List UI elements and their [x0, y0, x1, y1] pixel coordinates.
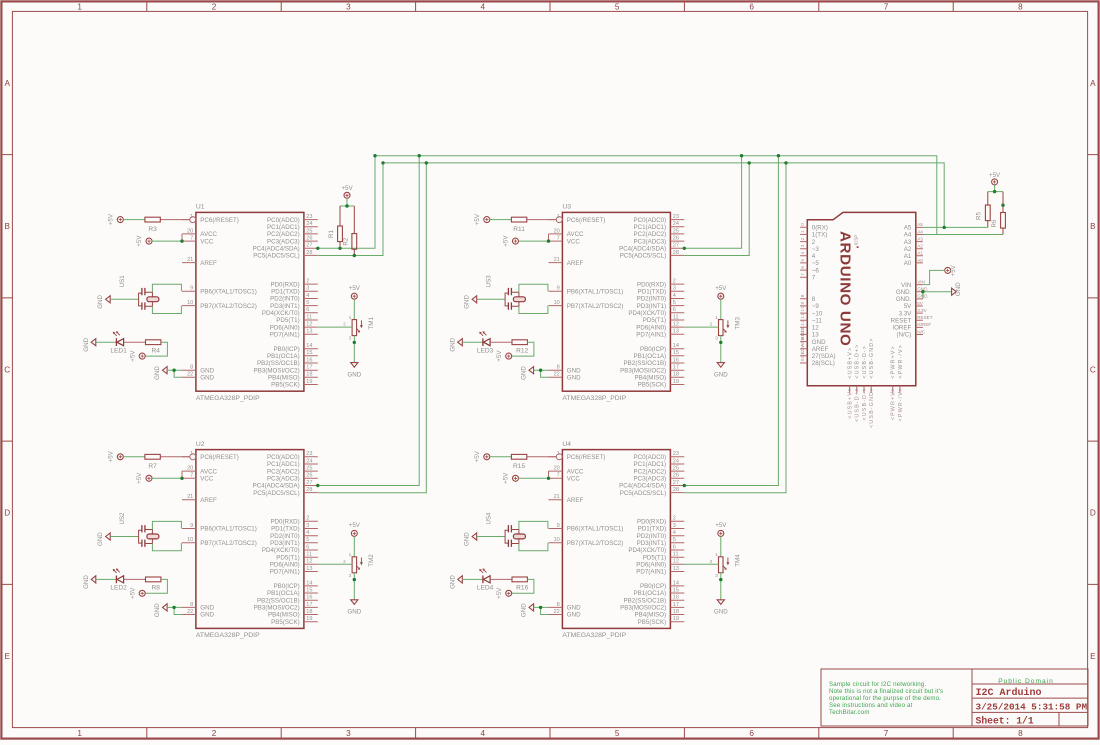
- +5V supply at R16: [496, 587, 512, 599]
- wire +5V to R7: [123, 456, 145, 458]
- wire R16 to +5V: [512, 579, 534, 593]
- svg-text:PD5(T1): PD5(T1): [643, 554, 666, 561]
- svg-text:21: 21: [187, 494, 193, 500]
- svg-text:AREF: AREF: [567, 260, 584, 267]
- svg-text:LED1: LED1: [110, 347, 127, 354]
- svg-text:+5V: +5V: [341, 185, 353, 192]
- svg-text:9: 9: [190, 286, 193, 292]
- svg-text:17: 17: [306, 365, 312, 371]
- junction U1 VCC: [180, 239, 183, 242]
- wire LED1 to R4: [124, 341, 146, 343]
- svg-text:22: 22: [187, 609, 193, 615]
- svg-text:PB2(SS/OC1B): PB2(SS/OC1B): [624, 597, 667, 604]
- svg-text:1: 1: [800, 230, 806, 233]
- svg-text:Sample circuit for I2C network: Sample circuit for I2C networking.: [829, 681, 926, 688]
- svg-text:GND: GND: [714, 609, 728, 616]
- svg-text:PC5(ADC5/SCL): PC5(ADC5/SCL): [620, 253, 666, 260]
- svg-text:6: 6: [673, 307, 676, 313]
- svg-text:PD2(INT0): PD2(INT0): [270, 533, 300, 540]
- svg-text:~10: ~10: [812, 310, 823, 317]
- svg-text:27: 27: [306, 243, 312, 249]
- svg-text:TM1: TM1: [368, 317, 375, 330]
- svg-text:25: 25: [673, 466, 679, 472]
- Arduino UNO left pin labels inside: [812, 225, 836, 368]
- svg-text:R15: R15: [513, 463, 525, 470]
- wire US4 to U4 XTAL2 pin 10: [519, 543, 548, 551]
- resistor R2: [342, 206, 356, 256]
- junction dots on SDA bus: [373, 154, 780, 157]
- svg-text:6: 6: [306, 307, 309, 313]
- svg-text:AREF: AREF: [812, 346, 829, 353]
- svg-text:20: 20: [554, 466, 560, 472]
- svg-text:AREF: AREF: [200, 260, 217, 267]
- svg-text:6: 6: [749, 729, 754, 738]
- svg-text:2: 2: [306, 516, 309, 522]
- svg-text:3: 3: [306, 523, 309, 529]
- svg-text:GND: GND: [812, 339, 826, 346]
- svg-text:~5: ~5: [812, 260, 820, 267]
- wire +5V to TM2: [353, 536, 355, 557]
- wire US3 to U3 XTAL1 pin 9: [519, 284, 548, 292]
- wire US1 to U1 XTAL1 pin 9: [152, 284, 181, 292]
- svg-text:R12: R12: [516, 347, 528, 354]
- wire +5V to U3 VCC: [518, 240, 548, 242]
- svg-text:GND.: GND.: [896, 289, 912, 296]
- wire GND to US2: [110, 536, 138, 538]
- wire US1 to U1 XTAL2 pin 10: [152, 306, 181, 314]
- wire GND to U3 pins 8 and 22: [534, 370, 549, 377]
- wire Arduino A5 to R5: [923, 226, 988, 228]
- resistor R7: [145, 454, 190, 470]
- svg-text:6: 6: [673, 544, 676, 550]
- svg-text:13: 13: [812, 332, 819, 339]
- Arduino UNO right pin labels outside: [917, 222, 933, 334]
- svg-text:+5V: +5V: [503, 235, 510, 247]
- wire +5V to R1 R2: [340, 198, 354, 206]
- +5V supply at U1 RESET: [107, 213, 123, 225]
- svg-text:PC4(ADC4/SDA): PC4(ADC4/SDA): [619, 483, 666, 490]
- wire LED4 to R16: [490, 578, 512, 580]
- svg-text:4: 4: [481, 3, 486, 12]
- svg-text:<PWR+V>: <PWR+V>: [891, 387, 897, 420]
- wire U3 SCL to bus: [684, 163, 749, 256]
- svg-text:7: 7: [557, 473, 560, 479]
- IC U3 ATMEGA328P_PDIP: [549, 204, 685, 402]
- svg-text:PD7(AIN1): PD7(AIN1): [636, 569, 666, 576]
- svg-text:VCC: VCC: [200, 476, 214, 483]
- LED LED4: [477, 568, 494, 591]
- svg-text:11: 11: [673, 314, 679, 320]
- svg-text:3: 3: [306, 286, 309, 292]
- svg-text:PC0(ADC0): PC0(ADC0): [634, 454, 667, 461]
- svg-text:27(SDA): 27(SDA): [812, 353, 836, 360]
- svg-text:GND: GND: [200, 375, 214, 382]
- +5V supply at R8: [129, 587, 145, 599]
- svg-text:PD6(AIN0): PD6(AIN0): [636, 562, 666, 569]
- svg-text:PD5(T1): PD5(T1): [643, 317, 666, 324]
- junction Arduino GND: [921, 290, 924, 293]
- svg-text:4: 4: [673, 293, 676, 299]
- +5V supply at U4 RESET: [474, 450, 490, 462]
- svg-text:PC3(ADC3): PC3(ADC3): [634, 476, 667, 483]
- wire LED2 to R8: [124, 578, 146, 580]
- wire +5V to R15: [490, 456, 512, 458]
- svg-text:R11: R11: [513, 226, 525, 233]
- wire TM1 to GND: [353, 336, 355, 363]
- svg-text:24: 24: [306, 458, 312, 464]
- svg-text:A: A: [1090, 79, 1096, 88]
- +5V supply at TM4: [715, 522, 727, 536]
- svg-text:11: 11: [306, 314, 312, 320]
- svg-text:<USB+V>: <USB+V>: [848, 387, 854, 419]
- trimmer TM2: [343, 552, 375, 579]
- svg-text:LED3: LED3: [477, 347, 494, 354]
- svg-text:AVCC: AVCC: [200, 468, 217, 475]
- svg-text:10: 10: [800, 305, 806, 311]
- svg-text:U1: U1: [196, 204, 205, 211]
- svg-text:16: 16: [673, 357, 679, 363]
- trimmer TM1: [343, 315, 375, 342]
- ground for TM4: [714, 600, 728, 616]
- svg-text:PB4(MISO): PB4(MISO): [635, 612, 667, 619]
- wire U4 SCL to bus: [684, 163, 786, 493]
- svg-text:16: 16: [673, 595, 679, 601]
- svg-text:28: 28: [306, 250, 312, 256]
- svg-text:+5V: +5V: [715, 285, 727, 292]
- svg-text:8: 8: [812, 296, 816, 303]
- svg-text:8: 8: [800, 294, 806, 297]
- svg-text:4: 4: [812, 253, 816, 260]
- trimmer TM3: [710, 315, 742, 342]
- ground for LED4: [449, 575, 462, 589]
- svg-text:2: 2: [673, 279, 676, 285]
- svg-text:PD6(AIN0): PD6(AIN0): [270, 324, 300, 331]
- svg-text:10: 10: [554, 300, 560, 306]
- ground at U4 pins 8/22: [521, 603, 534, 617]
- svg-text:A4: A4: [904, 232, 912, 239]
- svg-text:26: 26: [306, 473, 312, 479]
- svg-text:3: 3: [715, 573, 718, 579]
- svg-text:A4: A4: [917, 229, 923, 234]
- svg-text:PB7(XTAL2/TOSC2): PB7(XTAL2/TOSC2): [567, 303, 624, 310]
- svg-text:2: 2: [212, 729, 217, 738]
- svg-text:PD3(INT1): PD3(INT1): [637, 540, 667, 547]
- svg-text:GND: GND: [955, 282, 962, 296]
- frame column ticks top/bottom: [147, 3, 953, 738]
- wire TM2 to GND: [353, 573, 355, 600]
- wire US4 to U4 XTAL1 pin 9: [519, 521, 548, 529]
- svg-text:A1: A1: [917, 251, 923, 256]
- svg-text:3: 3: [800, 244, 806, 247]
- title block box: [821, 669, 1088, 726]
- svg-text:PB5(SCK): PB5(SCK): [638, 619, 667, 626]
- svg-text:5: 5: [615, 729, 620, 738]
- svg-text:12: 12: [306, 322, 312, 328]
- svg-text:R5: R5: [976, 211, 983, 219]
- svg-text:PD7(AIN1): PD7(AIN1): [270, 332, 300, 339]
- svg-text:U4: U4: [562, 441, 571, 448]
- svg-text:15: 15: [306, 350, 312, 356]
- svg-text:23: 23: [673, 214, 679, 220]
- resistor R1: [328, 206, 342, 248]
- svg-text:A0: A0: [904, 260, 912, 267]
- +5V supply at R4: [129, 350, 145, 362]
- svg-text:2: 2: [800, 237, 806, 240]
- resistor R4: [146, 340, 161, 355]
- svg-text:GND: GND: [567, 375, 581, 382]
- LED LED1: [110, 331, 127, 354]
- wire GND to LED3: [462, 341, 483, 343]
- svg-text:27: 27: [306, 480, 312, 486]
- svg-text:17: 17: [306, 602, 312, 608]
- svg-text:LED4: LED4: [477, 585, 494, 592]
- svg-text:+5V: +5V: [349, 522, 361, 529]
- svg-text:PD0(RXD): PD0(RXD): [270, 519, 299, 526]
- svg-text:D: D: [4, 509, 10, 518]
- svg-text:Sheet: 1/1: Sheet: 1/1: [976, 715, 1034, 726]
- wire U1 SCL to bus: [318, 163, 383, 256]
- svg-text:13: 13: [673, 566, 679, 572]
- svg-text:21: 21: [554, 257, 560, 263]
- svg-text:PC3(ADC3): PC3(ADC3): [267, 238, 300, 245]
- svg-text:IOREF: IOREF: [917, 322, 931, 327]
- svg-text:TechBitar.com: TechBitar.com: [829, 709, 870, 716]
- svg-text:I2C Arduino: I2C Arduino: [976, 687, 1042, 699]
- +5V supply at TM3: [715, 285, 727, 299]
- svg-text:3.3V: 3.3V: [917, 308, 927, 313]
- svg-text:<PWR+V>: <PWR+V>: [891, 345, 897, 378]
- svg-text:B: B: [4, 222, 10, 231]
- Arduino UNO left pin labels outside: [800, 223, 806, 362]
- svg-text:VCC: VCC: [567, 238, 581, 245]
- +5V supply at TM1: [349, 285, 361, 299]
- svg-text:8: 8: [1018, 729, 1023, 738]
- svg-text:3: 3: [673, 286, 676, 292]
- svg-text:23: 23: [673, 451, 679, 457]
- ground at U2 pins 8/22: [154, 603, 167, 617]
- svg-text:15: 15: [673, 587, 679, 593]
- crystal US2: [119, 512, 159, 547]
- svg-text:PB1(OC1A): PB1(OC1A): [267, 590, 300, 597]
- svg-text:+5V: +5V: [496, 587, 503, 599]
- svg-text:AVCC: AVCC: [567, 468, 584, 475]
- svg-text:<USB-D+>: <USB-D+>: [855, 344, 861, 379]
- svg-text:22: 22: [554, 609, 560, 615]
- svg-text:4: 4: [673, 530, 676, 536]
- svg-text:E: E: [1090, 652, 1096, 661]
- resistor R11: [511, 217, 556, 233]
- svg-text:~9: ~9: [812, 303, 820, 310]
- svg-text:PB6(XTAL1/TOSC1): PB6(XTAL1/TOSC1): [567, 526, 624, 533]
- frame row labels: [4, 79, 1096, 661]
- wire SDA bus: [375, 156, 937, 235]
- svg-text:3.3V: 3.3V: [899, 310, 913, 317]
- LED LED3: [477, 331, 494, 354]
- junction R2 bottom: [353, 254, 356, 257]
- svg-text:8: 8: [190, 365, 193, 371]
- svg-text:+5V: +5V: [107, 450, 114, 462]
- svg-text:GND: GND: [200, 367, 214, 374]
- svg-text:<PWR-/V>: <PWR-/V>: [898, 387, 904, 422]
- svg-text:18: 18: [306, 609, 312, 615]
- note text green: [829, 681, 943, 716]
- svg-text:7: 7: [190, 236, 193, 242]
- svg-text:15: 15: [673, 350, 679, 356]
- svg-text:13: 13: [673, 329, 679, 335]
- svg-text:~3: ~3: [812, 246, 820, 253]
- svg-text:7: 7: [812, 274, 816, 281]
- resistor R3: [145, 217, 190, 233]
- svg-text:US4: US4: [485, 512, 492, 525]
- svg-text:PC0(ADC0): PC0(ADC0): [267, 454, 300, 461]
- svg-text:PC3(ADC3): PC3(ADC3): [634, 238, 667, 245]
- svg-text:+5V: +5V: [503, 472, 510, 484]
- svg-text:GND: GND: [347, 609, 361, 616]
- wire LED3 to R12: [490, 341, 512, 343]
- svg-text:D: D: [1090, 509, 1096, 518]
- svg-text:24: 24: [306, 221, 312, 227]
- svg-text:18: 18: [673, 609, 679, 615]
- svg-text:GND: GND: [567, 367, 581, 374]
- svg-text:~11: ~11: [812, 317, 823, 324]
- svg-text:PB5(SCK): PB5(SCK): [638, 382, 667, 389]
- svg-text:PD2(INT0): PD2(INT0): [637, 533, 667, 540]
- svg-text:PC0(ADC0): PC0(ADC0): [267, 217, 300, 224]
- +5V supply for R5 R6: [989, 172, 1001, 185]
- svg-text:3: 3: [349, 336, 352, 342]
- svg-text:GND: GND: [97, 532, 104, 546]
- svg-text:PD4(XCK/T0): PD4(XCK/T0): [628, 547, 666, 554]
- wire U4 PD6 pin 12 to TM4 wiper: [684, 563, 718, 565]
- svg-text:PC2(ADC2): PC2(ADC2): [267, 468, 300, 475]
- ground for US1: [97, 294, 110, 308]
- svg-text:PB6(XTAL1/TOSC1): PB6(XTAL1/TOSC1): [200, 289, 257, 296]
- svg-text:PB3(MOSI/OC2): PB3(MOSI/OC2): [254, 605, 300, 612]
- svg-text:14: 14: [673, 580, 679, 586]
- +5V supply at R12: [496, 350, 512, 362]
- svg-text:GND: GND: [347, 371, 361, 378]
- +5V supply at U3 RESET: [474, 213, 490, 225]
- svg-text:19: 19: [306, 616, 312, 622]
- svg-text:PB0(ICP): PB0(ICP): [274, 583, 300, 590]
- svg-text:5: 5: [615, 3, 620, 12]
- wire GND to LED1: [96, 341, 117, 343]
- svg-text:PD4(XCK/T0): PD4(XCK/T0): [262, 547, 300, 554]
- IC U2 ATMEGA328P_PDIP: [182, 441, 318, 639]
- svg-text:9: 9: [557, 286, 560, 292]
- svg-text:2: 2: [212, 3, 217, 12]
- svg-text:PD2(INT0): PD2(INT0): [270, 296, 300, 303]
- svg-text:A5: A5: [917, 222, 923, 227]
- svg-text:20: 20: [187, 466, 193, 472]
- svg-text:+5V: +5V: [474, 213, 481, 225]
- svg-text:27: 27: [673, 480, 679, 486]
- svg-text:PC5(ADC5/SCL): PC5(ADC5/SCL): [620, 490, 666, 497]
- svg-text:PB5(SCK): PB5(SCK): [271, 382, 300, 389]
- resistor R15: [511, 454, 556, 470]
- svg-text:PD0(RXD): PD0(RXD): [637, 281, 666, 288]
- wire +5V to TM3: [720, 299, 722, 320]
- svg-text:PC4(ADC4/SDA): PC4(ADC4/SDA): [253, 246, 300, 253]
- Arduino UNO right pin labels inside: [891, 225, 913, 339]
- svg-text:PD1(TXD): PD1(TXD): [638, 526, 667, 533]
- svg-text:+5V: +5V: [129, 350, 136, 362]
- svg-text:VIN: VIN: [901, 282, 911, 289]
- wire US3 to U3 XTAL2 pin 10: [519, 306, 548, 314]
- svg-text:4: 4: [481, 729, 486, 738]
- LED LED2: [110, 568, 127, 591]
- ground for LED1: [83, 337, 96, 351]
- svg-text:PB3(MOSI/OC2): PB3(MOSI/OC2): [620, 367, 666, 374]
- svg-text:23: 23: [306, 214, 312, 220]
- svg-text:3: 3: [673, 523, 676, 529]
- svg-text:GND: GND: [83, 575, 90, 589]
- svg-text:AVCC: AVCC: [567, 231, 584, 238]
- svg-text:12: 12: [673, 559, 679, 565]
- svg-text:19: 19: [673, 616, 679, 622]
- svg-text:25: 25: [306, 466, 312, 472]
- svg-text:21: 21: [554, 494, 560, 500]
- svg-text:R6: R6: [991, 219, 998, 227]
- junction A5 SCL: [943, 226, 946, 229]
- svg-text:20: 20: [554, 228, 560, 234]
- svg-text:PB6(XTAL1/TOSC1): PB6(XTAL1/TOSC1): [200, 526, 257, 533]
- resistor R5: [976, 192, 991, 228]
- svg-text:+5V: +5V: [129, 587, 136, 599]
- svg-text:<USB-GND>: <USB-GND>: [869, 387, 875, 428]
- svg-text:7: 7: [884, 3, 889, 12]
- svg-text:N/C: N/C: [917, 329, 926, 334]
- svg-text:C: C: [1090, 366, 1096, 375]
- svg-text:PB5(SCK): PB5(SCK): [271, 619, 300, 626]
- junction +5V R1 R2: [345, 204, 348, 207]
- junction R1 bottom: [338, 247, 341, 250]
- svg-text:12: 12: [800, 320, 806, 326]
- svg-text:15: 15: [306, 587, 312, 593]
- svg-text:7: 7: [884, 729, 889, 738]
- svg-text:(N/C): (N/C): [897, 332, 912, 339]
- svg-text:PB3(MOSI/OC2): PB3(MOSI/OC2): [254, 367, 300, 374]
- svg-text:GND: GND: [567, 612, 581, 619]
- junction dots at pin27 connections: [316, 247, 686, 488]
- svg-text:GND: GND: [97, 294, 104, 308]
- svg-text:1: 1: [349, 315, 352, 321]
- svg-text:US3: US3: [485, 275, 492, 288]
- svg-text:<USB-GND>: <USB-GND>: [869, 338, 875, 379]
- wire +5V to U4 VCC: [518, 477, 548, 479]
- crystal US3: [485, 275, 525, 310]
- wire GND to U2 pins 8 and 22: [167, 607, 182, 614]
- svg-text:PB0(ICP): PB0(ICP): [640, 346, 666, 353]
- Arduino UNO left pin stubs: [800, 227, 807, 363]
- svg-text:25: 25: [673, 228, 679, 234]
- svg-text:PB2(SS/OC1B): PB2(SS/OC1B): [624, 360, 667, 367]
- svg-text:PB4(MISO): PB4(MISO): [268, 375, 300, 382]
- ground for TM3: [714, 363, 728, 379]
- resistor R8: [146, 577, 161, 592]
- svg-text:PD5(T1): PD5(T1): [276, 554, 299, 561]
- svg-text:PC5(ADC5/SCL): PC5(ADC5/SCL): [253, 490, 299, 497]
- svg-text:1: 1: [190, 214, 193, 220]
- svg-text:14: 14: [306, 580, 312, 586]
- svg-text:PB2(SS/OC1B): PB2(SS/OC1B): [257, 597, 300, 604]
- svg-text:9: 9: [190, 523, 193, 529]
- svg-text:R3: R3: [148, 226, 157, 233]
- wire U2 SCL to bus: [318, 163, 427, 493]
- wire +5V to R11: [490, 219, 512, 221]
- svg-text:26: 26: [306, 236, 312, 242]
- svg-text:11: 11: [800, 313, 806, 319]
